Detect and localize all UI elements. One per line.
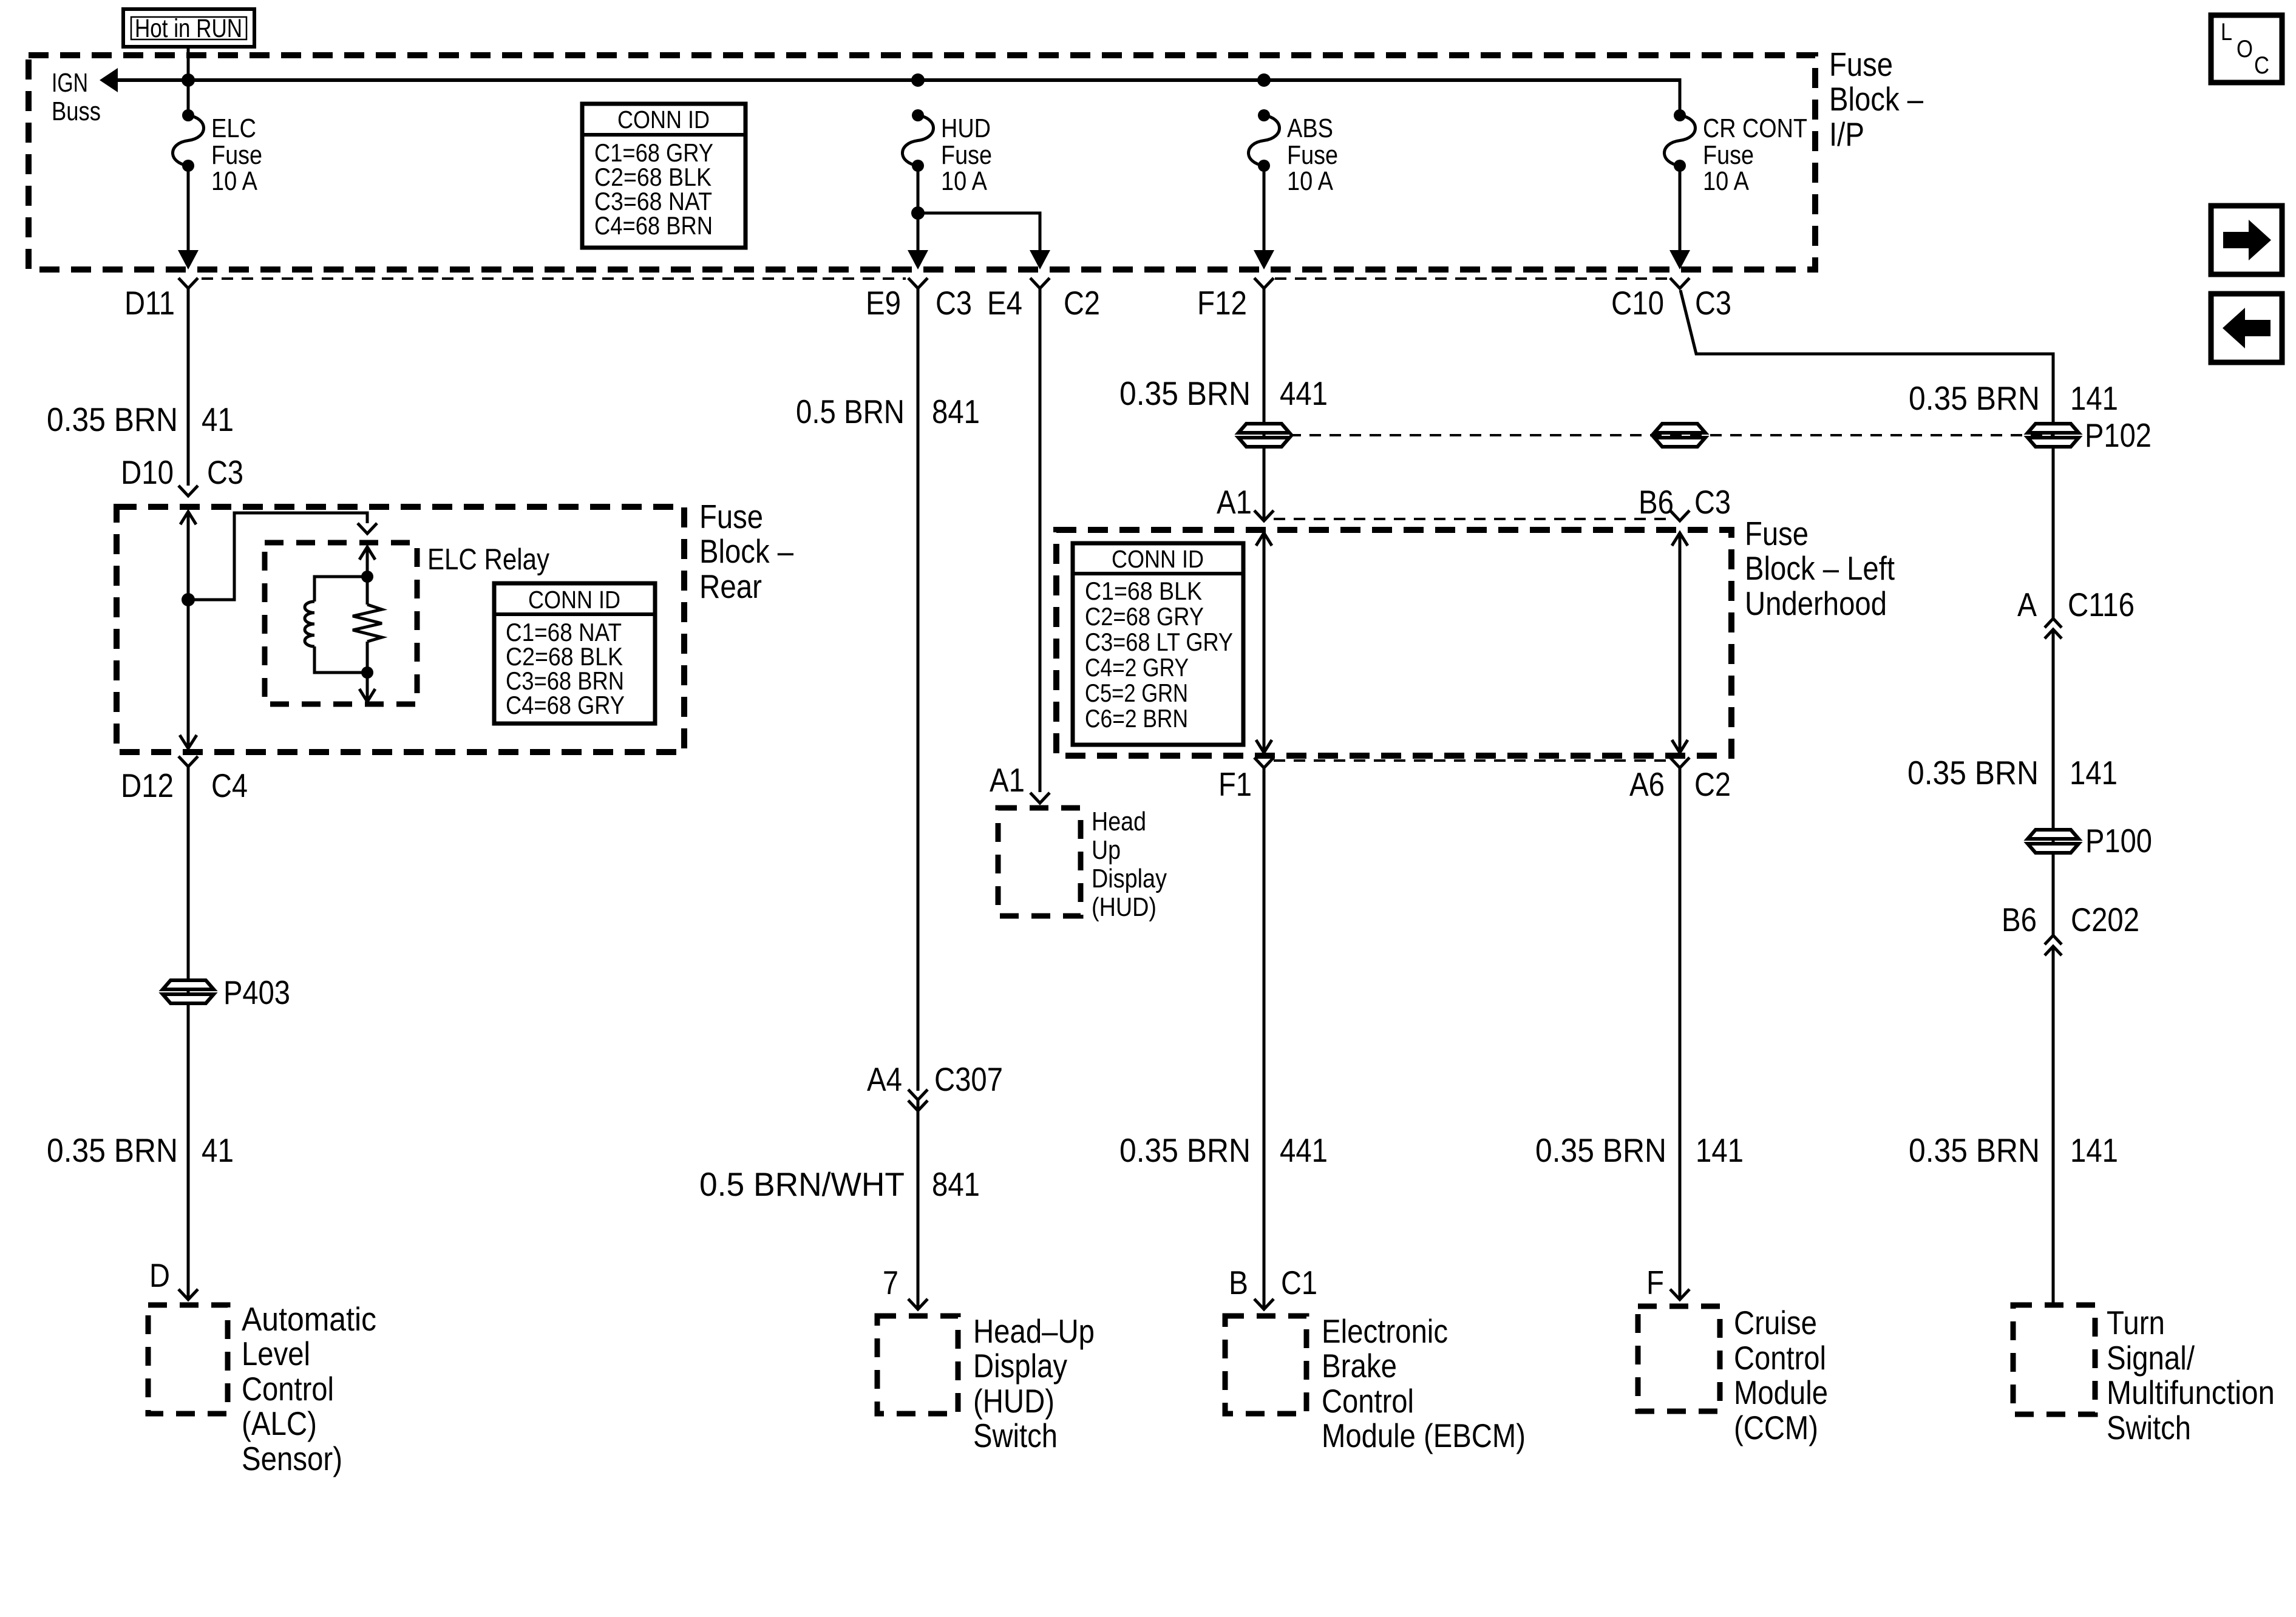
svg-text:10 A: 10 A — [941, 166, 988, 196]
svg-text:C307: C307 — [934, 1060, 1003, 1098]
connector D10 chevron — [178, 486, 198, 496]
svg-text:P102: P102 — [2085, 416, 2152, 454]
svg-text:Fuse: Fuse — [1703, 140, 1754, 170]
connector B6/C3 chevron — [1670, 510, 1690, 521]
wire 141 inside underhood block — [1679, 533, 1682, 753]
svg-text:F12: F12 — [1197, 284, 1247, 322]
svg-text:Switch: Switch — [973, 1417, 1058, 1454]
svg-text:Automatic: Automatic — [242, 1300, 376, 1338]
label box Hot in RUN — [123, 9, 254, 47]
wire 841 E9 to C307 — [917, 288, 920, 1091]
svg-text:C2: C2 — [1064, 284, 1100, 322]
label Automatic Level Control (ALC) Sensor — [242, 1300, 376, 1477]
svg-text:C3: C3 — [1695, 284, 1731, 322]
thin dashed line A1-B6 — [1274, 518, 1668, 520]
wire 441 F12 to underhood block — [1263, 288, 1266, 521]
svg-text:Control: Control — [242, 1370, 334, 1408]
svg-text:0.35 BRN: 0.35 BRN — [1119, 375, 1251, 412]
wire 141 branch from C10 to P102 — [1680, 290, 2053, 618]
svg-text:Fuse: Fuse — [211, 140, 262, 170]
wire 41 D11 to D10 — [187, 288, 190, 486]
svg-text:Switch: Switch — [2107, 1409, 2191, 1446]
svg-text:CR CONT: CR CONT — [1703, 114, 1807, 143]
thin dashed line F1-A6 — [1274, 759, 1668, 762]
svg-text:C4: C4 — [211, 767, 248, 804]
svg-text:Brake: Brake — [1322, 1347, 1397, 1385]
arrow 441 leaving underhood block — [1256, 740, 1272, 753]
EBCM dashed box — [1225, 1316, 1306, 1414]
wire CR CONT drop — [1679, 78, 1682, 115]
connector face thin dashed line mid segment — [1275, 277, 1668, 280]
svg-text:D: D — [149, 1256, 170, 1294]
wire relay top node — [366, 547, 369, 577]
connector C307 double chevron — [908, 1090, 928, 1111]
connector D12 chevron — [178, 756, 198, 767]
svg-text:Block – Left: Block – Left — [1745, 549, 1895, 587]
svg-text:10 A: 10 A — [1287, 166, 1334, 196]
arrow into C10 — [1669, 250, 1690, 269]
junction dot HUD branch — [911, 206, 925, 220]
svg-text:Fuse: Fuse — [1287, 140, 1338, 170]
wire inside fuse block rear — [187, 512, 190, 748]
IGN Buss net label — [52, 68, 101, 126]
svg-text:A6: A6 — [1629, 765, 1665, 803]
svg-text:C3: C3 — [207, 453, 243, 491]
arrow into F12 — [1254, 250, 1274, 269]
svg-text:0.5 BRN: 0.5 BRN — [796, 393, 905, 430]
svg-text:10 A: 10 A — [1703, 166, 1750, 196]
svg-text:B: B — [1229, 1264, 1248, 1301]
wire CR CONT fuse to C10 — [1679, 166, 1682, 255]
ELC relay dashed box — [265, 543, 417, 704]
IGN buss arrow — [100, 68, 118, 92]
svg-text:Underhood: Underhood — [1745, 585, 1887, 622]
connector C202 double chevron — [2045, 935, 2062, 955]
svg-text:A4: A4 — [867, 1060, 902, 1098]
svg-text:C1=68 BLK: C1=68 BLK — [1085, 577, 1202, 605]
wire E4 to HUD display — [1039, 288, 1042, 792]
legend arrow right box — [2211, 206, 2282, 274]
svg-text:141: 141 — [2070, 754, 2118, 792]
svg-text:Module: Module — [1734, 1374, 1828, 1411]
svg-text:Head: Head — [1092, 807, 1146, 836]
svg-text:D12: D12 — [121, 767, 174, 804]
splice P102 — [2028, 416, 2152, 454]
svg-text:B6: B6 — [1639, 483, 1674, 521]
connector D chevron — [178, 1289, 198, 1300]
CONN ID table Underhood — [1073, 543, 1243, 745]
fuse CR CONT 10A — [1665, 109, 1808, 196]
junction dot relay branch — [182, 593, 195, 606]
svg-text:E4: E4 — [987, 284, 1022, 322]
svg-text:Head–Up: Head–Up — [973, 1312, 1095, 1350]
arrow into D11 — [178, 250, 199, 269]
svg-text:841: 841 — [932, 393, 980, 430]
svg-text:Multifunction: Multifunction — [2107, 1374, 2275, 1411]
svg-text:C3: C3 — [1694, 483, 1731, 521]
arrow 441 entering underhood block — [1256, 533, 1272, 546]
svg-text:Rear: Rear — [699, 568, 762, 605]
arrow entering fuse block rear — [180, 512, 196, 524]
svg-text:C4=2 GRY: C4=2 GRY — [1085, 653, 1189, 682]
svg-text:I/P: I/P — [1829, 115, 1864, 153]
splice P100 — [2028, 822, 2152, 859]
fuse ELC 10A — [173, 109, 263, 196]
CCM dashed box — [1638, 1306, 1720, 1411]
junction dot ELC — [182, 73, 195, 87]
svg-text:841: 841 — [932, 1165, 980, 1203]
CONN ID table I/P — [582, 104, 746, 248]
arrow 141 entering underhood block — [1672, 533, 1688, 546]
splice dashed link 441-141-P102 — [1289, 434, 2053, 436]
svg-text:(ALC): (ALC) — [242, 1405, 317, 1442]
connector A6/C2 chevron — [1670, 758, 1690, 768]
svg-text:B6: B6 — [2002, 901, 2037, 938]
fuse ABS 10A — [1249, 109, 1339, 196]
svg-text:A1: A1 — [1217, 483, 1252, 521]
svg-text:141: 141 — [1696, 1131, 1744, 1169]
wire 141 C202 to turn signal switch — [2052, 946, 2055, 1306]
wire 841 C307 to HUD switch — [917, 1100, 920, 1308]
connector A1 chevron (underhood) — [1254, 510, 1274, 521]
svg-text:Up: Up — [1092, 835, 1121, 865]
svg-text:Fuse: Fuse — [941, 140, 992, 170]
svg-text:441: 441 — [1280, 375, 1328, 412]
svg-text:CONN ID: CONN ID — [617, 106, 710, 134]
fuse block Rear dashed box — [117, 507, 684, 752]
wire ABS fuse to F12 — [1263, 166, 1266, 255]
fuse block left underhood dashed box — [1056, 530, 1731, 756]
svg-text:0.35 BRN: 0.35 BRN — [1909, 1131, 2040, 1169]
svg-text:C116: C116 — [2068, 586, 2135, 623]
svg-text:41: 41 — [202, 1131, 234, 1169]
svg-text:C10: C10 — [1611, 284, 1664, 322]
label Electronic Brake Control Module (EBCM) — [1322, 1312, 1526, 1454]
svg-text:A1: A1 — [990, 761, 1025, 799]
junction dot relay top — [361, 571, 373, 583]
junction dot HUD — [911, 73, 925, 87]
svg-text:Fuse: Fuse — [1745, 515, 1809, 552]
svg-text:C6=2 BRN: C6=2 BRN — [1085, 704, 1188, 733]
svg-text:F: F — [1646, 1264, 1664, 1301]
svg-text:L: L — [2221, 19, 2232, 46]
svg-text:HUD: HUD — [941, 114, 991, 143]
svg-text:P100: P100 — [2085, 822, 2152, 859]
svg-text:0.35 BRN: 0.35 BRN — [47, 1131, 178, 1169]
arrow entering ELC relay — [359, 547, 375, 560]
arrow into E9 — [908, 250, 928, 269]
svg-text:0.35 BRN: 0.35 BRN — [1907, 754, 2039, 792]
svg-text:D10: D10 — [121, 453, 174, 491]
junction dot relay bottom — [361, 666, 373, 679]
svg-text:Control: Control — [1322, 1382, 1414, 1420]
label Fuse Block - Left Underhood — [1745, 515, 1895, 622]
svg-text:C4=68 BRN: C4=68 BRN — [594, 211, 713, 240]
svg-text:E9: E9 — [866, 284, 901, 322]
wire 441 F1 to EBCM — [1263, 768, 1266, 1308]
svg-text:D11: D11 — [124, 284, 175, 322]
svg-text:P403: P403 — [223, 974, 290, 1011]
HUD display dashed box — [998, 808, 1081, 916]
svg-text:Display: Display — [973, 1347, 1067, 1385]
svg-text:ELC Relay: ELC Relay — [427, 543, 549, 576]
connector C10/C3 chevron — [1670, 278, 1690, 288]
svg-text:C2=68 GRY: C2=68 GRY — [1085, 602, 1204, 631]
connector D11 chevron — [178, 278, 198, 288]
label Head Up Display (HUD) — [1092, 807, 1167, 922]
svg-text:441: 441 — [1280, 1131, 1328, 1169]
wire branch to E4 — [918, 213, 1040, 255]
label Fuse Block - Rear — [699, 498, 793, 605]
fuse HUD 10A — [903, 109, 993, 196]
svg-text:Block –: Block – — [699, 532, 793, 570]
svg-text:C5=2 GRN: C5=2 GRN — [1085, 679, 1188, 707]
svg-text:Module (EBCM): Module (EBCM) — [1322, 1417, 1526, 1454]
svg-text:7: 7 — [883, 1264, 898, 1301]
svg-text:C4=68 GRY: C4=68 GRY — [506, 691, 625, 719]
svg-text:C3=68 LT GRY: C3=68 LT GRY — [1085, 628, 1233, 656]
svg-text:Display: Display — [1092, 864, 1167, 893]
connector A1 chevron (HUD) — [1030, 793, 1050, 803]
connector F chevron — [1670, 1289, 1690, 1300]
svg-text:Electronic: Electronic — [1322, 1312, 1448, 1350]
svg-text:(CCM): (CCM) — [1734, 1409, 1818, 1446]
label Head-Up Display (HUD) Switch — [973, 1312, 1095, 1454]
wire branch to ELC relay — [188, 513, 367, 600]
splice S141 — [1654, 424, 1705, 447]
LOC legend box — [2211, 15, 2282, 83]
svg-text:Signal/: Signal/ — [2107, 1339, 2195, 1377]
svg-text:41: 41 — [202, 401, 234, 438]
connector E4 chevron — [1030, 278, 1050, 288]
wire 141 A6 to CCM — [1679, 768, 1682, 1299]
svg-text:CONN ID: CONN ID — [528, 586, 620, 614]
svg-text:C202: C202 — [2071, 901, 2139, 938]
ALC sensor dashed box — [148, 1305, 228, 1414]
svg-text:IGN: IGN — [52, 68, 88, 98]
svg-text:0.35 BRN: 0.35 BRN — [1909, 379, 2040, 417]
svg-text:Block –: Block – — [1829, 80, 1923, 118]
relay coil L1 — [305, 577, 367, 673]
IGN buss wire — [116, 78, 1680, 82]
svg-text:Fuse: Fuse — [1829, 46, 1893, 83]
CONN ID table Rear — [494, 583, 655, 724]
connector 7 chevron — [908, 1299, 928, 1309]
svg-text:Hot in RUN: Hot in RUN — [135, 14, 242, 43]
connector face thin dashed line left segment — [202, 277, 906, 280]
svg-text:Turn: Turn — [2107, 1304, 2165, 1341]
relay resistor — [353, 577, 382, 673]
arrow into E4 — [1030, 250, 1050, 269]
splice P403 — [163, 974, 290, 1011]
fuse block I/P dashed box — [29, 55, 1815, 269]
svg-text:0.35 BRN: 0.35 BRN — [47, 401, 178, 438]
wire 141 C116 to C202 — [2052, 629, 2055, 935]
label Cruise Control Module (CCM) — [1734, 1304, 1828, 1446]
connector chevron into ELC relay — [358, 523, 377, 534]
svg-text:Control: Control — [1734, 1339, 1826, 1377]
svg-text:O: O — [2237, 36, 2253, 63]
HUD switch dashed box — [877, 1316, 958, 1414]
svg-text:Buss: Buss — [52, 97, 101, 126]
connector F12 chevron — [1254, 278, 1274, 288]
svg-text:(HUD): (HUD) — [973, 1382, 1055, 1420]
connector F1 chevron — [1254, 758, 1274, 768]
connector E9 chevron — [908, 278, 928, 288]
svg-text:A: A — [2017, 586, 2037, 623]
wire HUD fuse to E9 — [917, 166, 920, 255]
connector B/C1 chevron — [1254, 1299, 1274, 1309]
legend arrow left box — [2211, 294, 2282, 362]
wire 41 D12 to ALC — [187, 767, 190, 1299]
svg-text:Fuse: Fuse — [699, 498, 763, 535]
svg-text:Level: Level — [242, 1335, 310, 1372]
svg-text:0.35 BRN: 0.35 BRN — [1535, 1131, 1666, 1169]
svg-text:141: 141 — [2070, 379, 2118, 417]
arrow leaving ELC relay — [359, 689, 375, 702]
svg-text:10 A: 10 A — [211, 166, 258, 196]
svg-text:ELC: ELC — [211, 114, 256, 143]
svg-text:C2: C2 — [1694, 765, 1731, 803]
svg-text:C3: C3 — [936, 284, 972, 322]
turn signal switch dashed box — [2013, 1305, 2095, 1414]
wire ELC fuse to D11 — [187, 166, 190, 255]
splice S441 — [1238, 424, 1289, 447]
label Turn Signal Multifunction Switch — [2107, 1304, 2275, 1446]
svg-text:C: C — [2254, 52, 2269, 79]
junction dot ABS — [1257, 73, 1271, 87]
svg-text:0.35 BRN: 0.35 BRN — [1119, 1131, 1251, 1169]
svg-text:F1: F1 — [1218, 765, 1252, 803]
svg-text:0.5 BRN/WHT: 0.5 BRN/WHT — [699, 1165, 905, 1203]
wire 441 inside underhood block — [1263, 533, 1266, 753]
svg-text:141: 141 — [2070, 1131, 2118, 1169]
svg-text:CONN ID: CONN ID — [1112, 545, 1204, 573]
wire stub from Hot in RUN to IGN buss — [187, 47, 190, 115]
svg-text:ABS: ABS — [1287, 114, 1333, 143]
svg-text:(HUD): (HUD) — [1092, 892, 1156, 922]
wire relay bottom exit — [366, 673, 369, 700]
connector C116 double chevron — [2045, 619, 2062, 639]
arrow leaving fuse block rear — [180, 735, 197, 748]
svg-text:Sensor): Sensor) — [242, 1440, 342, 1477]
svg-text:Cruise: Cruise — [1734, 1304, 1817, 1341]
arrow 141 leaving underhood block — [1672, 740, 1688, 753]
label Fuse Block - I/P — [1829, 46, 1923, 153]
svg-text:C1: C1 — [1281, 1264, 1317, 1301]
